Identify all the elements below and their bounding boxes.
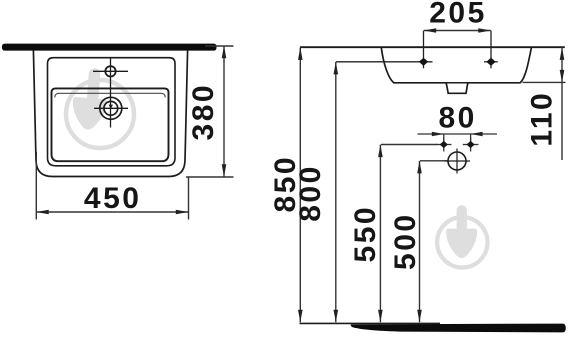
svg-text:205: 205 <box>429 0 487 30</box>
svg-text:80: 80 <box>439 102 477 135</box>
svg-text:550: 550 <box>349 205 382 263</box>
svg-text:500: 500 <box>389 212 422 270</box>
svg-text:110: 110 <box>526 91 559 147</box>
svg-text:380: 380 <box>187 83 220 141</box>
svg-text:450: 450 <box>84 182 142 215</box>
svg-text:800: 800 <box>294 164 327 222</box>
